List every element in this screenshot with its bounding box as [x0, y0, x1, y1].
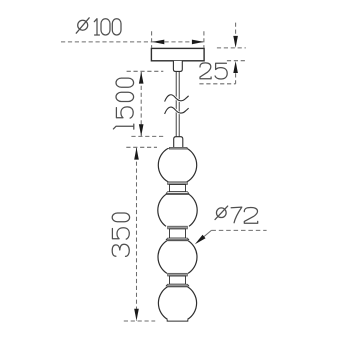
- extension line plate right: [203, 31, 205, 48]
- leader line dia72: [197, 230, 267, 242]
- arrow 1500 bottom: [139, 124, 144, 136]
- leader underline 25: [199, 83, 235, 85]
- glass ball 3: [158, 241, 197, 274]
- arrow dia72: [193, 235, 205, 246]
- glass ball 4: [158, 287, 196, 320]
- label 25: [200, 63, 227, 79]
- connector ring 1: [168, 182, 188, 185]
- arrow 350 bottom: [134, 309, 139, 321]
- cable break wave lower: [165, 107, 189, 114]
- arrow 1500 top: [139, 72, 144, 84]
- ball 1 top collar: [169, 147, 187, 149]
- label 1500 (rotated): [113, 78, 133, 129]
- extension line cable top: [127, 70, 164, 72]
- cable break wave upper: [165, 95, 189, 102]
- ceiling plate: [151, 48, 204, 60]
- label 350 (rotated): [112, 213, 129, 256]
- arrow 25 top: [233, 36, 238, 48]
- label dia72: [215, 206, 258, 223]
- dim leader line dia100: [61, 41, 204, 43]
- connector ring 3: [168, 273, 188, 276]
- label dia100: [76, 18, 121, 35]
- extension line ball bottom: [124, 320, 155, 322]
- canopy stem: [173, 61, 182, 72]
- cable connector: [174, 137, 183, 148]
- extension line cable bottom: [131, 135, 164, 137]
- extension line plate bottom right: [227, 60, 246, 62]
- suspension cable: [175, 72, 177, 138]
- glass ball 1: [158, 148, 196, 182]
- arrow dia100 left: [152, 40, 164, 45]
- arrow 25 bottom: [233, 61, 238, 73]
- connector ring 2: [168, 226, 188, 229]
- extension line ball top: [126, 146, 157, 148]
- dim line 1500: [140, 72, 142, 136]
- dim line 25 vertical: [235, 23, 237, 84]
- ball 4 base rim: [167, 319, 188, 321]
- extension line plate left: [151, 31, 153, 48]
- arrow 350 top: [134, 148, 139, 160]
- arrow dia100 right: [192, 40, 204, 45]
- glass ball 2: [158, 194, 197, 226]
- dim line 350: [136, 148, 138, 321]
- extension line plate top right: [217, 47, 246, 49]
